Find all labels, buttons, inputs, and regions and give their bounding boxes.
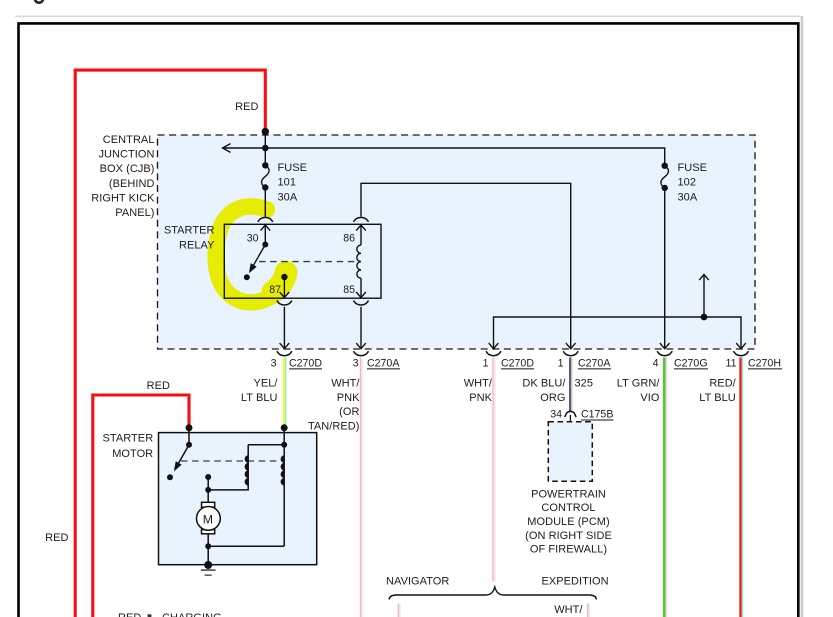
svg-text:TAN/RED): TAN/RED)	[308, 421, 360, 433]
svg-text:CONTROL: CONTROL	[541, 502, 595, 514]
svg-text:RED/: RED/	[709, 378, 736, 390]
svg-text:102: 102	[678, 177, 697, 189]
connector arc above relay pin 30	[258, 217, 273, 221]
svg-text:C270D: C270D	[501, 357, 534, 369]
svg-text:BOX (CJB): BOX (CJB)	[100, 163, 155, 175]
caption letter fragment (top-left, cut off)	[35, 0, 43, 3]
svg-text:325: 325	[575, 378, 594, 390]
svg-text:30A: 30A	[278, 192, 298, 204]
connector arc below relay pin 85	[353, 301, 368, 305]
relay switch armature	[254, 245, 266, 266]
svg-text:FUSE: FUSE	[278, 162, 308, 174]
svg-text:NAVIGATOR: NAVIGATOR	[386, 576, 449, 588]
svg-text:3: 3	[353, 357, 359, 369]
wire RED/LT BLU (exit6, down off page)	[741, 358, 743, 617]
wire pin 87 to CJB exit	[283, 307, 285, 349]
CJB exit 1: arrow, cup, label 3 C270D	[277, 343, 292, 356]
label STARTER MOTOR	[103, 432, 154, 460]
svg-text:LT BLU: LT BLU	[699, 392, 736, 404]
svg-text:(BEHIND: (BEHIND	[109, 178, 155, 190]
wire pin 85 to CJB exit	[360, 307, 362, 349]
label RED/ LT BLU	[699, 378, 736, 404]
svg-text:YEL/: YEL/	[253, 378, 278, 390]
wire WHT/PNK (exit3, to brace)	[493, 358, 495, 582]
svg-text:86: 86	[343, 232, 355, 244]
svg-text:RED: RED	[118, 612, 141, 617]
node on bus	[701, 314, 708, 321]
continuation stub with up arrow	[699, 275, 709, 318]
wire WHT/PNK (exit2, down off page)	[361, 358, 363, 617]
motor M1	[197, 502, 221, 534]
ground G1	[204, 561, 212, 569]
starter switch contact	[167, 474, 173, 480]
svg-text:RIGHT KICK: RIGHT KICK	[91, 192, 155, 204]
svg-text:85: 85	[343, 284, 355, 296]
connector arc above relay pin 86	[353, 217, 368, 221]
svg-text:STARTER: STARTER	[164, 225, 215, 237]
wire to motor	[207, 477, 209, 503]
svg-text:EXPEDITION: EXPEDITION	[542, 576, 609, 588]
svg-text:87: 87	[269, 284, 281, 296]
label YEL/ LT BLU	[241, 378, 278, 404]
label STARTER RELAY	[164, 225, 215, 252]
svg-text:30: 30	[247, 232, 259, 244]
wire fuse 102 down to C270G exit	[664, 188, 666, 349]
wire: fuse 101 to relay pin 30	[264, 188, 266, 217]
panel right hairline	[801, 16, 804, 617]
svg-text:MOTOR: MOTOR	[112, 448, 153, 460]
relay pin 30: entry arrow and wire	[261, 225, 271, 245]
relay switch fixed contact	[244, 274, 250, 280]
CJB label	[91, 134, 155, 219]
relay pin 87	[281, 274, 287, 280]
wire pin 86 up and over to C270A exit	[361, 183, 571, 348]
labels DK BLU/ ORG 325	[522, 378, 593, 404]
wire bus connecting C270D-1 and C270H-11	[494, 317, 742, 349]
svg-text:CENTRAL: CENTRAL	[103, 134, 155, 146]
relay: starter relay box	[224, 224, 381, 298]
panel top hairline	[15, 15, 801, 17]
label FUSE 101 30A	[278, 162, 308, 204]
node: junction of branch on main feed	[262, 145, 269, 152]
CJB exit 3: arrow, cup, label 1 C270D	[486, 343, 501, 356]
svg-text:(ON RIGHT SIDE: (ON RIGHT SIDE	[525, 530, 612, 542]
svg-text:C270G: C270G	[674, 357, 708, 369]
svg-text:30A: 30A	[678, 192, 698, 204]
svg-text:4: 4	[653, 357, 659, 369]
relay coil (pins 86/85)	[356, 225, 366, 298]
svg-text:JUNCTION: JUNCTION	[98, 149, 154, 161]
svg-text:PNK: PNK	[337, 392, 360, 404]
svg-text:1: 1	[558, 357, 564, 369]
starter solenoid right winding	[283, 428, 285, 546]
starter switch armature	[179, 445, 190, 464]
svg-text:LT GRN/: LT GRN/	[617, 378, 661, 390]
wire solenoid return	[208, 545, 284, 547]
svg-text:VIO: VIO	[640, 392, 659, 404]
wire: branch with left arrow feeding fuse 102	[223, 144, 665, 166]
node: yellow wire junction on starter box	[281, 424, 288, 431]
PCM label	[525, 488, 612, 555]
label WHT/ PNK	[464, 378, 493, 404]
node: supply junction on CJB top edge	[262, 128, 269, 135]
wire into starter switch	[188, 428, 190, 445]
CJB dashed border	[158, 135, 756, 349]
svg-text:OF FIREWALL): OF FIREWALL)	[530, 544, 607, 556]
svg-text:RED: RED	[235, 101, 258, 113]
svg-text:PNK: PNK	[469, 392, 492, 404]
CJB exit 2: arrow, cup, label 3 C270A	[353, 343, 368, 356]
starter mechanical link (dashed)	[181, 460, 281, 462]
powertrain control module (PCM) box	[548, 422, 592, 482]
svg-text:RELAY: RELAY	[179, 239, 215, 251]
svg-text:WHT/: WHT/	[331, 378, 360, 390]
svg-text:C270A: C270A	[367, 357, 400, 369]
starter motor box	[159, 433, 317, 565]
wire motor to ground	[207, 534, 209, 565]
svg-text:34: 34	[550, 409, 562, 421]
svg-text:WHT/: WHT/	[554, 604, 583, 616]
wire LT GRN/VIO (exit5, down off page)	[664, 358, 666, 617]
wire RED to starter motor (second loop)	[93, 395, 189, 617]
svg-text:101: 101	[278, 177, 297, 189]
wire YEL/LT BLU (exit1 to starter motor)	[284, 358, 286, 426]
svg-text:RED: RED	[45, 532, 68, 544]
label LT GRN/ VIO	[617, 378, 661, 404]
CJB exit 6: arrow, cup, label 11 C270H	[733, 343, 748, 356]
connector arc below pin 87	[277, 301, 292, 305]
svg-text:3: 3	[271, 357, 277, 369]
svg-text:(OR: (OR	[339, 406, 359, 418]
svg-text:C175B: C175B	[581, 409, 613, 421]
svg-text:FUSE: FUSE	[678, 162, 708, 174]
svg-text:PANEL): PANEL)	[115, 207, 154, 219]
wire RED battery feed (left loop)	[75, 70, 265, 617]
node: solenoid return junction	[205, 543, 211, 549]
svg-text:STARTER: STARTER	[103, 432, 154, 444]
svg-text:RED: RED	[147, 380, 170, 392]
svg-text:C270D: C270D	[289, 357, 322, 369]
wire stub WHT/PNK navigator	[398, 604, 400, 617]
wire DK BLU/ORG (exit4 to PCM)	[570, 358, 572, 412]
node: red feed junction on starter box	[186, 424, 193, 431]
svg-text:M: M	[203, 512, 213, 526]
svg-text:MODULE (PCM): MODULE (PCM)	[527, 516, 610, 528]
node: motor feed contact	[205, 474, 211, 480]
svg-text:DK BLU/: DK BLU/	[522, 378, 566, 390]
fuse F102 30A	[661, 163, 669, 192]
central junction box (CJB) body	[158, 135, 756, 349]
starter solenoid left winding	[208, 445, 284, 490]
svg-text:C270H: C270H	[748, 357, 781, 369]
svg-text:11: 11	[726, 357, 737, 369]
svg-text:C270A: C270A	[578, 357, 611, 369]
label FUSE 102 30A	[678, 162, 708, 204]
highlighter annotation (yellow marker around relay)	[216, 206, 286, 302]
svg-text:LT BLU: LT BLU	[241, 392, 278, 404]
CJB exit 4: arrow, cup, label 1 C270A	[563, 343, 578, 356]
svg-text:1: 1	[483, 357, 489, 369]
relay mechanical link (dashed)	[259, 261, 356, 263]
wire stub WHT/PNK expedition	[588, 604, 590, 617]
svg-text:WHT/: WHT/	[464, 378, 493, 390]
svg-text:ORG: ORG	[540, 392, 565, 404]
CJB exit 5: arrow, cup, label 4 C270G	[657, 343, 672, 356]
svg-text:POWERTRAIN: POWERTRAIN	[531, 488, 606, 500]
svg-text:CHARGING: CHARGING	[162, 612, 222, 617]
wire: feed into CJB down to fuse 101	[264, 132, 266, 166]
fuse F101 30A	[262, 162, 270, 191]
label WHT/ PNK (OR TAN/RED)	[308, 378, 360, 433]
